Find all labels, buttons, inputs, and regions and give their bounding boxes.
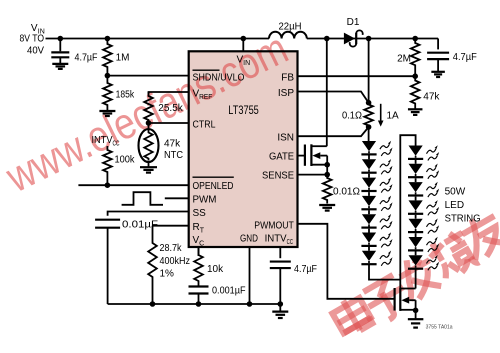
svg-text:47k: 47k (164, 138, 181, 149)
label R5 28.7k 400kHz 1% (160, 243, 191, 280)
junction D1 cathode (366, 36, 372, 42)
ground Q2 (408, 319, 424, 327)
svg-text:GND: GND (240, 233, 258, 244)
junction OPENLED (105, 182, 111, 188)
wire ISN (298, 127, 369, 136)
svg-text:1A: 1A (387, 110, 400, 121)
resistor R2 185k (103, 76, 112, 107)
svg-text:SS: SS (193, 208, 207, 219)
junction C1 (58, 36, 64, 42)
label R3 25.5k (158, 103, 183, 114)
svg-text:4.7µF: 4.7µF (75, 52, 98, 63)
IC label RT (193, 222, 205, 235)
wire RT (153, 225, 189, 227)
junction switch node (324, 36, 330, 42)
IC label VREF (193, 89, 213, 102)
svg-text:ISN: ISN (277, 132, 294, 143)
svg-text:3755 TA01a: 3755 TA01a (426, 325, 454, 331)
IC U1 fill (189, 51, 298, 247)
wire VREF (149, 92, 189, 94)
IC label GATE (269, 151, 294, 162)
ground R10 (319, 205, 335, 211)
label 1A (387, 110, 400, 121)
svg-text:CTRL: CTRL (193, 119, 216, 130)
wire VC (198, 247, 200, 256)
IC label FB (281, 73, 294, 84)
svg-text:10k: 10k (207, 264, 224, 275)
label R6 10k (207, 264, 224, 275)
wire right string bottom to Q2 drain (415, 269, 417, 289)
label figure tag 3755 TA01a (426, 325, 454, 331)
svg-text:GATE: GATE (269, 151, 294, 162)
resistor R6 10k (194, 247, 203, 287)
svg-text:4.7µF: 4.7µF (453, 52, 477, 63)
IC label VC (193, 235, 205, 248)
junction VIN pin (241, 36, 247, 42)
svg-text:28.7k: 28.7k (160, 243, 183, 254)
capacitor C5 4.7uF (427, 39, 449, 72)
label R9 0.1ohm (342, 110, 362, 121)
ground C5 (431, 72, 445, 77)
wire FB (298, 75, 416, 77)
svg-text:0.001µF: 0.001µF (212, 285, 246, 296)
svg-text:PWMOUT: PWMOUT (254, 221, 294, 232)
svg-text:LT3755: LT3755 (228, 105, 258, 117)
wire switch node vertical (326, 39, 328, 147)
svg-text:40V: 40V (27, 46, 44, 57)
junction rail 28.7k (150, 301, 156, 307)
label C3 0.001uF (212, 285, 246, 296)
led string right column (7 LEDs) (408, 145, 439, 270)
junction 0.1ohm top (366, 100, 372, 106)
IC U1 LT3755 body (189, 51, 298, 247)
svg-text:SHDN/UVLO: SHDN/UVLO (193, 72, 245, 83)
IC label SS (193, 208, 207, 219)
junction SHDN divider (105, 73, 111, 79)
svg-text:1M: 1M (116, 52, 130, 63)
svg-text:ISP: ISP (278, 88, 294, 99)
node VIN input label (20, 23, 45, 57)
wire INTVCC pin (279, 247, 281, 258)
resistor R5 28.7k (148, 226, 157, 304)
IC label LT3755 (228, 105, 258, 117)
junction FB node (412, 73, 418, 79)
svg-text:8V TO: 8V TO (20, 34, 45, 45)
svg-text:SENSE: SENSE (262, 170, 294, 181)
IC label PWM (193, 195, 217, 206)
junction Q2 source (413, 308, 419, 314)
IC label ISP (278, 88, 294, 99)
wire bottom rail (108, 303, 281, 305)
capacitor C2 0.01uF (95, 220, 120, 304)
label C4 4.7uF (294, 264, 317, 275)
watermark www.elecfans.com (0, 24, 295, 203)
wire CTRL (149, 122, 189, 124)
thermistor RT1 47k NTC (139, 123, 159, 167)
resistor R10 0.01ohm (323, 175, 332, 204)
svg-text:22µH: 22µH (279, 21, 302, 32)
svg-text:0.01Ω: 0.01Ω (333, 187, 361, 198)
resistor R7 2M (411, 39, 420, 77)
transistor Q1 (305, 144, 327, 174)
resistor R1 1M (103, 39, 112, 76)
node INTVCC label (92, 135, 120, 148)
junction SENSE (324, 172, 330, 178)
led string left column (7 LEDs) (361, 141, 392, 266)
junction Q1 source (324, 162, 330, 168)
ground bottom rail (272, 304, 288, 318)
label R2 185k (116, 90, 135, 101)
capacitor C1 4.7uF (51, 39, 69, 64)
label C2 0.01uF (122, 219, 158, 230)
svg-text:1%: 1% (160, 269, 175, 280)
label R1 1M (116, 52, 130, 63)
ground C1 (52, 64, 68, 69)
label R4 100k (115, 155, 136, 166)
junction R1 top (105, 36, 111, 42)
label 50W LED STRING (445, 187, 481, 225)
ground RT1 (140, 167, 157, 172)
IC label CTRL (193, 119, 216, 130)
svg-text:400kHz: 400kHz (160, 256, 191, 267)
svg-text:D1: D1 (347, 17, 360, 28)
IC label ISN (277, 132, 294, 143)
IC label OPENLED (193, 177, 234, 192)
junction rail INTVCC (278, 301, 284, 307)
svg-text:47k: 47k (423, 92, 440, 103)
IC pin VIN stub (242, 39, 244, 52)
ground R8 (408, 109, 423, 115)
ground R2 (99, 107, 115, 117)
IC label SHDN/UVLO (193, 70, 245, 83)
resistor R9 0.1ohm (364, 103, 373, 127)
label C5 4.7uF (453, 52, 477, 63)
wire GATE (298, 155, 305, 157)
label L1 22uH (279, 21, 302, 32)
wire GND pin (249, 247, 251, 304)
label R7 2M (397, 54, 411, 65)
capacitor C4 4.7uF (270, 262, 291, 304)
svg-text:50W: 50W (445, 187, 466, 198)
svg-text:PWM: PWM (193, 195, 217, 206)
svg-text:STRING: STRING (445, 214, 481, 225)
wire 0.1ohm to left string (368, 127, 370, 141)
wire PWMOUT (298, 224, 395, 299)
transistor Q2 (395, 288, 416, 319)
svg-text:NTC: NTC (164, 150, 183, 161)
label D1 (347, 17, 360, 28)
svg-text:0.1Ω: 0.1Ω (342, 110, 362, 121)
junction rail VC (196, 301, 202, 307)
label RT1 47k NTC (164, 138, 183, 161)
wire D1 to 0.1ohm (368, 39, 370, 103)
wire PWM (165, 197, 189, 199)
capacitor C3 0.001uF (189, 287, 209, 305)
wire SENSE (298, 174, 328, 176)
svg-text:OPENLED: OPENLED (193, 181, 234, 192)
svg-text:185k: 185k (116, 90, 135, 101)
wire ISP (298, 92, 369, 103)
resistor R3 25.5k (144, 92, 153, 123)
svg-text:2M: 2M (397, 54, 411, 65)
wire series link vertical (400, 135, 415, 288)
resistor R8 47k (411, 76, 420, 109)
current arrow 1A (378, 104, 384, 127)
IC label PWMOUT (254, 221, 294, 232)
watermark chinese electronics fans (330, 209, 500, 339)
label R10 0.01ohm (333, 187, 361, 198)
wire SHDN/UVLO (107, 75, 188, 77)
IC label INTVCC (265, 233, 294, 246)
wire top rail VIN (46, 38, 439, 40)
IC label GND (240, 233, 258, 244)
junction CTRL (146, 120, 152, 126)
wire OPENLED (78, 184, 188, 186)
svg-text:25.5k: 25.5k (158, 103, 183, 114)
diode D1 (344, 30, 363, 46)
svg-text:LED: LED (445, 200, 464, 211)
junction 2M top (412, 36, 418, 42)
wire SS (108, 212, 189, 216)
svg-text:FB: FB (281, 73, 294, 84)
IC label SENSE (262, 170, 294, 181)
wire left string bottom (369, 264, 400, 279)
inductor L1 22uH (269, 32, 307, 39)
label R8 47k (423, 92, 440, 103)
svg-text:100k: 100k (115, 155, 136, 166)
label C1 4.7uF (75, 52, 98, 63)
pwm pulse waveform (122, 192, 163, 205)
IC label VIN (237, 55, 251, 68)
junction 0.1ohm bottom (366, 124, 372, 130)
svg-text:4.7µF: 4.7µF (294, 264, 317, 275)
resistor R4 100k (103, 146, 112, 185)
junction rail GND (247, 301, 253, 307)
